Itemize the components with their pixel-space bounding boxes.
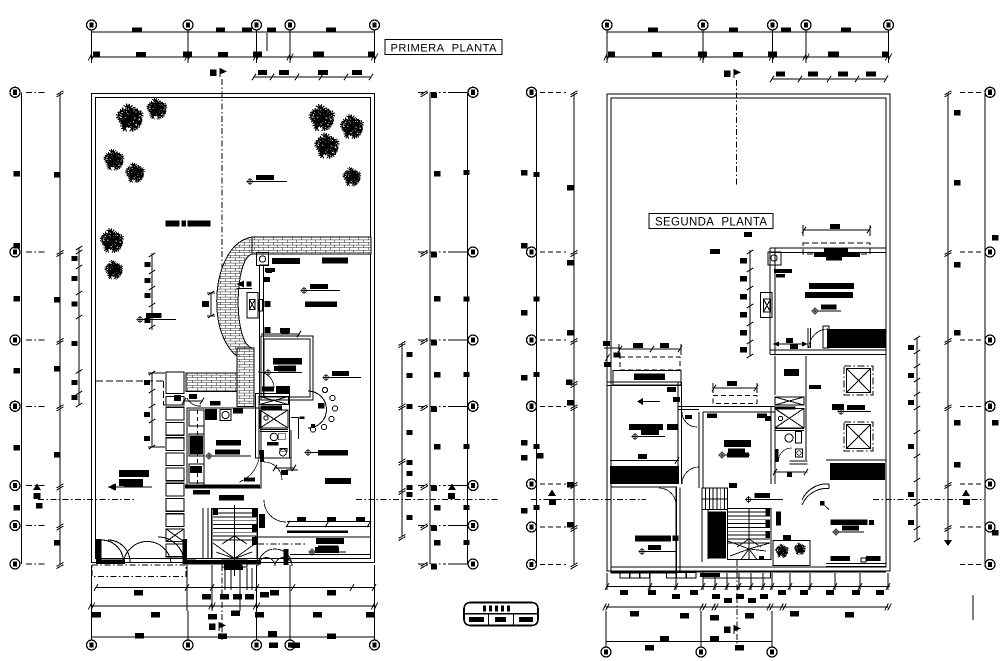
kitchen fridge bbox=[189, 410, 204, 426]
grid stub bbox=[540, 405, 566, 407]
right stair center line bbox=[748, 509, 750, 560]
grid bubble bbox=[10, 87, 20, 97]
stair strip boxes bbox=[166, 407, 184, 420]
hall blobs bbox=[264, 277, 270, 282]
grid extension bbox=[700, 611, 702, 649]
grid stub bbox=[960, 339, 984, 341]
extension line bbox=[230, 568, 232, 590]
dim text bbox=[992, 530, 999, 536]
right bottom flag bbox=[724, 625, 741, 634]
dim text bbox=[954, 462, 961, 468]
grid extension bbox=[256, 611, 258, 644]
bedroom4 inner walls bbox=[611, 487, 677, 573]
dim text bbox=[72, 380, 78, 385]
bath dim bbox=[274, 467, 295, 469]
grid extension line bbox=[888, 25, 890, 63]
study door arc bbox=[258, 372, 274, 388]
bath sink bbox=[280, 449, 287, 456]
dim text bbox=[136, 52, 146, 57]
bath wall bottom bbox=[259, 457, 291, 459]
dim text bbox=[434, 171, 441, 177]
title box PRIMERA PLANTA bbox=[385, 40, 502, 55]
right plan top dim line 2 bbox=[607, 56, 889, 58]
grid bubble bbox=[801, 20, 811, 30]
bottom window band bbox=[287, 521, 371, 523]
grid extension bbox=[771, 611, 773, 649]
grid stub bbox=[960, 564, 984, 566]
closet top dim bbox=[619, 348, 681, 350]
dim text bbox=[630, 611, 639, 617]
serpentine brick wall top band bbox=[252, 237, 371, 254]
dim text bbox=[407, 485, 413, 490]
master bottom window bbox=[831, 556, 851, 561]
grid extension bbox=[91, 611, 93, 644]
dim text bbox=[407, 460, 413, 465]
dim text bbox=[145, 318, 151, 323]
bedroom1 wardrobe bbox=[827, 329, 886, 348]
bath shower xbox 1 bbox=[260, 397, 289, 405]
dim text bbox=[72, 302, 78, 307]
right bottom dim row 2 bbox=[606, 606, 888, 608]
top sub dim line bbox=[254, 76, 371, 78]
grid stub bbox=[540, 564, 566, 566]
patio plants door bbox=[772, 541, 774, 566]
dim text bbox=[218, 52, 228, 57]
section cut line left plan west bbox=[33, 484, 41, 491]
serpentine brick wall curve bbox=[217, 237, 252, 362]
right stair west wall bbox=[701, 488, 703, 562]
dim text bbox=[740, 347, 747, 353]
corridor wall by stair bbox=[202, 508, 204, 559]
doorway arcs dining bbox=[264, 462, 282, 480]
dim text bbox=[92, 612, 101, 618]
master keynote bbox=[833, 526, 864, 536]
closet dashed bbox=[620, 357, 680, 370]
stair strip box 2 bbox=[166, 397, 184, 406]
right-of-right-plan sub dim line bbox=[916, 338, 918, 540]
window xbox left wall bbox=[247, 293, 258, 319]
grid bubble bbox=[468, 335, 478, 345]
dim text bbox=[748, 598, 756, 603]
mid vertical dim string bbox=[749, 250, 751, 356]
right stair side blobs bbox=[766, 509, 771, 516]
tree bbox=[100, 228, 124, 253]
grid extension line bbox=[91, 25, 93, 63]
bedroom4 text bbox=[635, 536, 671, 542]
dim text bbox=[366, 612, 375, 618]
dim text bbox=[368, 52, 375, 57]
grid extension bbox=[605, 611, 607, 649]
bedroom4 door arc bbox=[659, 488, 676, 505]
dim text bbox=[208, 614, 217, 620]
left rooms top wall bbox=[607, 381, 681, 383]
left-of-right-plan grid line bbox=[536, 92, 538, 564]
grid stub bbox=[448, 405, 467, 407]
dim text bbox=[992, 420, 999, 426]
right stair black wall bbox=[708, 512, 726, 559]
dim text bbox=[231, 611, 240, 617]
grid stub bbox=[960, 91, 984, 93]
dim text bbox=[327, 634, 336, 640]
dim text bbox=[760, 594, 768, 599]
big room keynote upper bbox=[323, 371, 354, 381]
living room text 3 bbox=[305, 302, 337, 308]
dash line entry vertical bbox=[163, 381, 165, 405]
dim text bbox=[954, 330, 961, 336]
dim text bbox=[464, 505, 470, 510]
dim text bbox=[93, 52, 100, 57]
bath toilet bbox=[270, 433, 278, 441]
bedroom1 top wall bbox=[770, 247, 886, 249]
garage pillar bbox=[284, 549, 289, 565]
kitchen counter line bbox=[203, 410, 205, 486]
stair winder tread bbox=[222, 536, 247, 544]
living room text 2 bbox=[272, 258, 300, 264]
dim text bbox=[202, 594, 211, 600]
grid bubble bbox=[468, 481, 478, 491]
dim text bbox=[808, 72, 818, 77]
grid bubble bbox=[285, 640, 295, 650]
kitchen sink circle box bbox=[220, 410, 231, 421]
right plan top grid line bbox=[607, 31, 889, 33]
kitchen wall black bar bbox=[260, 450, 264, 462]
bath bottom wall bbox=[790, 460, 808, 462]
terrace left small dim bbox=[604, 347, 620, 349]
dim text bbox=[253, 52, 262, 57]
dim text bbox=[220, 594, 229, 600]
grid bubble bbox=[767, 647, 777, 657]
grid stub bbox=[26, 525, 45, 527]
left plan outer wall bbox=[92, 94, 375, 563]
dim text bbox=[407, 492, 413, 497]
grid stub bbox=[540, 339, 566, 341]
section arrow annotation left bbox=[108, 479, 146, 491]
dim text bbox=[14, 505, 21, 511]
grid stub bbox=[448, 485, 467, 487]
hall walls mid bbox=[698, 412, 700, 488]
grid stub dash bbox=[418, 339, 446, 341]
dim text bbox=[534, 505, 540, 510]
grid stub bbox=[26, 405, 45, 407]
porch arch C bbox=[124, 541, 172, 562]
dim text bbox=[680, 613, 689, 619]
grid bubble bbox=[985, 522, 995, 532]
bottom right wall blob bbox=[259, 514, 265, 528]
study room wall bbox=[261, 336, 313, 400]
dim text bbox=[745, 613, 754, 619]
dim text bbox=[648, 28, 658, 33]
bedroom1 south wall bbox=[770, 349, 886, 351]
dim text bbox=[464, 540, 470, 545]
top sub dim line right plan bbox=[772, 78, 886, 80]
dim text bbox=[826, 590, 834, 595]
extension line bbox=[251, 568, 253, 590]
grid stub bbox=[26, 91, 45, 93]
dim text bbox=[648, 590, 656, 595]
dim text bbox=[326, 28, 336, 33]
small circle fixture bbox=[322, 387, 327, 392]
hall top wall bbox=[678, 406, 703, 408]
dim text bbox=[740, 258, 747, 264]
grid bubble bbox=[985, 247, 995, 257]
tree bbox=[309, 104, 335, 131]
left inner dim line bbox=[59, 92, 61, 564]
stair left dim line bbox=[151, 373, 153, 447]
left-of-right-plan dim line bbox=[573, 92, 575, 564]
grid bubble bbox=[468, 401, 478, 411]
kitchen entry dim bbox=[183, 400, 203, 402]
grid bubble bbox=[10, 247, 20, 257]
stair rungs bbox=[213, 512, 256, 514]
dim text bbox=[407, 373, 413, 378]
dim text bbox=[908, 400, 914, 405]
dim text bbox=[521, 440, 528, 446]
grid bubble bbox=[527, 87, 537, 97]
patio plants room walls bbox=[773, 541, 810, 566]
kitchen stove bbox=[189, 434, 204, 456]
grid bubble bbox=[252, 20, 262, 30]
entry step blobs bbox=[224, 566, 243, 571]
dim text bbox=[258, 70, 267, 75]
dim text bbox=[740, 276, 747, 282]
study dim tick bbox=[261, 333, 300, 335]
dim text bbox=[291, 643, 300, 649]
top wall blob bbox=[322, 258, 348, 264]
dim text bbox=[431, 526, 437, 531]
dim text bbox=[279, 70, 289, 75]
dim text bbox=[778, 590, 786, 595]
left plan below dashed portico bbox=[92, 565, 186, 577]
left outer grid line bbox=[21, 92, 23, 564]
dim text bbox=[434, 296, 441, 302]
bath toilet right plan bbox=[785, 434, 793, 442]
grid bubble bbox=[696, 647, 706, 657]
dim text bbox=[407, 471, 413, 476]
grid bubble bbox=[285, 20, 295, 30]
brick wall column bbox=[257, 253, 269, 266]
kitchen bottom wall bbox=[185, 485, 260, 489]
bedroom3 top wall bbox=[703, 406, 775, 408]
dim text bbox=[434, 540, 441, 546]
grid stub dash bbox=[418, 563, 446, 565]
dim text bbox=[434, 505, 441, 511]
dim text bbox=[268, 631, 277, 637]
dim text bbox=[534, 444, 540, 449]
tree bbox=[314, 133, 339, 159]
right plan bottom band windows bbox=[611, 571, 886, 573]
dim text bbox=[144, 380, 150, 385]
dim text bbox=[318, 70, 328, 75]
porch east black wall bbox=[183, 539, 188, 564]
garden keynote bbox=[137, 313, 166, 323]
dim text bbox=[729, 28, 738, 33]
grid extension line bbox=[256, 25, 258, 63]
dim text bbox=[255, 612, 264, 618]
grid stub bbox=[960, 251, 984, 253]
dim text bbox=[954, 262, 961, 268]
dim text bbox=[352, 70, 362, 75]
dim text bbox=[54, 540, 61, 546]
right plan inner wall line bbox=[611, 98, 886, 567]
window marks bbox=[297, 517, 306, 522]
dim text bbox=[521, 243, 528, 249]
bottom extension lines bbox=[91, 565, 93, 611]
right plan outer wall bbox=[607, 94, 890, 571]
dim text bbox=[712, 594, 720, 599]
dash line entry bbox=[96, 380, 164, 382]
bath door arc bbox=[779, 448, 792, 461]
dim text bbox=[218, 634, 227, 640]
dim text bbox=[431, 253, 437, 258]
grid bubble bbox=[527, 522, 537, 532]
grid bubble bbox=[468, 521, 478, 531]
dim text bbox=[567, 400, 574, 406]
study keynote bbox=[265, 366, 302, 376]
grid bubble bbox=[985, 335, 995, 345]
dim text bbox=[698, 52, 707, 57]
kitchen counter black box bbox=[205, 409, 217, 420]
grid bubble bbox=[252, 640, 262, 650]
dim text bbox=[407, 404, 413, 409]
dim text bbox=[521, 508, 528, 514]
right stair fan bbox=[728, 541, 749, 549]
dim text bbox=[434, 372, 441, 378]
grid stub bbox=[448, 91, 467, 93]
dining stool circles bbox=[322, 387, 327, 392]
bath dashes top bbox=[809, 385, 821, 389]
bottom dim row 2 bbox=[92, 605, 375, 607]
grid stub dash bbox=[418, 91, 446, 93]
dim text bbox=[954, 110, 961, 116]
grid stub bbox=[540, 251, 566, 253]
serpentine brick wall vertical strip bbox=[237, 348, 254, 407]
dim text bbox=[72, 276, 78, 281]
bedroom4 walls bbox=[675, 488, 677, 573]
dim text bbox=[733, 52, 743, 57]
dim text bbox=[852, 590, 860, 595]
dim text bbox=[866, 72, 876, 77]
dim text bbox=[144, 436, 150, 441]
garage dash-dot bbox=[258, 543, 306, 545]
patio dim small bbox=[210, 293, 212, 316]
grid bubble bbox=[527, 335, 537, 345]
dim text bbox=[36, 503, 43, 509]
patio black blob bbox=[783, 535, 791, 541]
extension line bbox=[246, 568, 248, 590]
tree bbox=[125, 163, 145, 183]
top dim ticks bbox=[88, 54, 94, 61]
dim text bbox=[14, 368, 21, 374]
stair tread mark bbox=[737, 539, 761, 547]
window xbox right plan bbox=[761, 293, 773, 318]
dim text bbox=[710, 636, 719, 642]
grid stub bbox=[960, 483, 984, 485]
north flag left plan bbox=[210, 68, 227, 77]
dim text bbox=[908, 520, 914, 525]
dim text bbox=[740, 294, 747, 300]
dim text bbox=[132, 28, 142, 33]
dim text bbox=[54, 452, 61, 458]
grid stub bbox=[26, 485, 45, 487]
kitchen top corner black bar bbox=[210, 401, 221, 406]
extension line stub bbox=[266, 33, 268, 51]
grid extension bbox=[289, 611, 291, 644]
left plan top grid line A-E bbox=[92, 31, 375, 33]
bedroom3 window dim bbox=[713, 387, 757, 389]
bedroom3 east wall bbox=[770, 407, 772, 485]
kitchen text bbox=[216, 440, 241, 446]
dim text bbox=[735, 645, 744, 651]
grid extension bbox=[187, 611, 189, 644]
grid stub bbox=[540, 526, 566, 528]
tree bbox=[146, 98, 167, 119]
dim text bbox=[464, 444, 470, 449]
stair center line bbox=[234, 505, 236, 576]
dim text bbox=[534, 297, 540, 302]
dim text bbox=[431, 407, 437, 412]
dim text bbox=[660, 636, 669, 642]
scale legend box bbox=[464, 603, 538, 626]
right plan bottom protrusion bbox=[703, 571, 771, 578]
dim text bbox=[608, 52, 615, 57]
balcony dashed rect bbox=[803, 243, 870, 254]
right bottom grid line bbox=[606, 641, 772, 643]
dim text bbox=[54, 172, 61, 178]
right-of-left-plan dim line 1 bbox=[429, 92, 431, 564]
grid bubble bbox=[768, 20, 778, 30]
dim text bbox=[790, 611, 799, 617]
svg-text:PRIMERA PLANTA: PRIMERA PLANTA bbox=[391, 43, 498, 55]
grid stub dash bbox=[418, 485, 446, 487]
stair right wall bbox=[256, 509, 258, 565]
sala arrow annotation bbox=[109, 481, 153, 490]
dim text bbox=[327, 590, 336, 596]
stair keynote bbox=[745, 493, 774, 503]
dining nook corner bbox=[298, 418, 300, 440]
bedroom3 text bbox=[724, 440, 751, 447]
dim text bbox=[54, 297, 61, 303]
dim text bbox=[72, 395, 78, 400]
living room keynote bbox=[301, 284, 334, 294]
plant 2 bbox=[794, 543, 806, 555]
dim text bbox=[216, 28, 225, 33]
bathroom walls bbox=[256, 394, 290, 459]
porch pillar west bbox=[96, 539, 102, 564]
dim text bbox=[845, 612, 854, 618]
dim text bbox=[464, 297, 470, 302]
grid stub bbox=[448, 563, 467, 565]
balcony dim top right bbox=[803, 229, 870, 231]
dim text bbox=[134, 590, 143, 596]
dim text bbox=[14, 243, 21, 249]
grid extension line bbox=[187, 25, 189, 63]
dim text bbox=[620, 590, 628, 595]
dim text bbox=[151, 612, 160, 618]
door arc bedroom1 bbox=[809, 329, 828, 348]
grid bubble bbox=[183, 20, 193, 30]
bedroom2 south black wall bbox=[610, 460, 679, 462]
dim text bbox=[534, 172, 540, 177]
grid stub bbox=[960, 526, 984, 528]
right stair upper ladder bbox=[702, 488, 728, 510]
garden annotation keynote bbox=[247, 175, 280, 185]
master wardrobe bbox=[830, 463, 885, 480]
dim text bbox=[72, 341, 78, 346]
garden text blobs bbox=[166, 221, 180, 227]
dim text bbox=[431, 565, 437, 570]
wall stub top bbox=[260, 264, 269, 266]
dim text bbox=[740, 312, 747, 318]
